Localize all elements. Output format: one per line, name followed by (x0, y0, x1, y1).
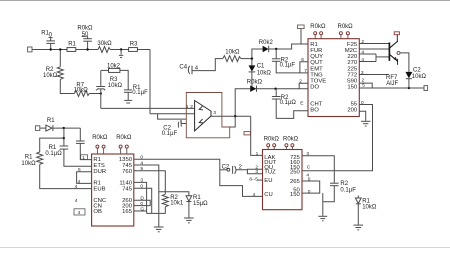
svg-text:R0kΩ: R0kΩ (310, 24, 326, 30)
svg-text:50: 50 (82, 32, 89, 38)
capacitor R1 0.1µF lower stem (127, 92, 129, 100)
wire diode R1 10kΩ to ground (357, 204, 359, 225)
wire branch to IC1 pin 6 (300, 62, 308, 73)
capacitor C2 0.1µF plates (177, 122, 179, 128)
IC1 U1 box (308, 39, 359, 117)
svg-text:10kΩ: 10kΩ (362, 204, 377, 210)
junction dot after diode R0k2 (275, 48, 277, 50)
svg-text:265: 265 (290, 179, 301, 185)
svg-text:270: 270 (347, 60, 358, 66)
wire op-amp input 2 (150, 113, 194, 115)
svg-text:R2: R2 (46, 67, 54, 73)
svg-text:0: 0 (140, 201, 143, 207)
junction dot B bottom-left (63, 137, 65, 139)
capacitor R2 0.1µF plates (right) (330, 182, 339, 184)
capacitor R1 0.1µΩ plates (76, 140, 85, 142)
junction dot cap R0kΩ-50 (86, 48, 88, 50)
svg-text:EU: EU (264, 178, 272, 184)
wire feedback notch (230, 116, 236, 127)
transistor emitter node circle (397, 51, 400, 54)
svg-text:0.1µF: 0.1µF (162, 131, 178, 137)
svg-text:30kΩ: 30kΩ (97, 41, 112, 47)
ground under IC2 745 (154, 226, 164, 228)
wire branch along op-amp lower input (158, 114, 187, 119)
svg-text:1: 1 (186, 104, 189, 110)
wire resistor R1 bottom to IC2 EUB (40, 164, 92, 188)
capacitor R2 0.1µF upper stem (275, 49, 277, 59)
junction dot under diode C2 (408, 87, 410, 89)
resistor R1 box (67, 48, 76, 52)
capacitor on feedback vertical, top plate (96, 86, 105, 88)
capacitor C2 polarized left wire (220, 169, 227, 171)
wire R2 10k1 bottom to bus (147, 207, 166, 214)
wire junction up and to diode R0k2 (252, 49, 263, 59)
diode R0k2 (263, 46, 269, 53)
IC3 top circle pins pair 1 (267, 147, 269, 150)
wire capacitor to IC2 ETS pin (64, 149, 92, 166)
svg-text:3: 3 (140, 178, 143, 184)
svg-text:3: 3 (213, 110, 216, 116)
resistor R3 box (129, 48, 138, 52)
wire 10k2 box right to cap R1 (120, 70, 128, 89)
wire R7 to node (89, 93, 101, 95)
wire diode R0kΩ to IC1 DO pin (257, 88, 309, 90)
junction dot cap R1-0 (50, 48, 52, 50)
svg-text:3: 3 (255, 169, 258, 175)
svg-text:4: 4 (361, 57, 364, 63)
capacitor R1-0 plates (46, 42, 55, 44)
svg-text:4: 4 (75, 198, 78, 204)
svg-text:D: D (140, 196, 144, 202)
wire C4 to 10k resistor staircase (192, 59, 223, 71)
svg-text:5: 5 (362, 82, 365, 88)
resistor R7 10kΩ zigzag (74, 91, 89, 97)
wire top pad to IC1 R1 wire (300, 29, 302, 44)
svg-text:CU: CU (264, 192, 273, 198)
svg-text:10kΩ: 10kΩ (43, 73, 58, 79)
diode R1 10kΩ stub (357, 195, 359, 198)
svg-text:QUT: QUT (310, 60, 323, 66)
box around pin number 1 at IC2 (81, 155, 88, 160)
pad near op-amp output (244, 132, 250, 135)
capacitor R1 0.1µF plates (124, 89, 132, 91)
wire IC1 220 pin 4 (359, 53, 376, 55)
svg-text:4: 4 (78, 179, 81, 185)
svg-text:G: G (140, 206, 144, 212)
svg-text:R1: R1 (49, 145, 57, 151)
capacitor R1-0 stem (50, 44, 52, 50)
capacitor R2 0.1µΩ plates (272, 96, 281, 98)
svg-text:5: 5 (78, 167, 81, 173)
wire IC2 745b pin down (134, 188, 152, 213)
op-amp U1 trapezoid body (195, 101, 211, 131)
wire op-amp input 1 (long) (101, 107, 194, 109)
junction dot A bottom-left (63, 127, 65, 129)
svg-text:3: 3 (306, 151, 309, 157)
svg-text:10k2: 10k2 (107, 64, 121, 70)
svg-text:BO: BO (310, 107, 319, 113)
svg-text:R0kΩ: R0kΩ (283, 136, 299, 142)
junction dot red stub (120, 48, 122, 50)
svg-text:250: 250 (290, 170, 301, 176)
svg-text:6: 6 (180, 119, 183, 125)
wire stem junction to red mark (120, 50, 122, 55)
capacitor R1 0.1µΩ plates (left) (60, 145, 69, 147)
svg-text:R3: R3 (130, 42, 138, 48)
wire junction A down to capacitor R1 0.1µΩ (63, 128, 65, 146)
ground under diode R1 10kΩ (354, 224, 364, 226)
svg-text:AlJF: AlJF (386, 81, 398, 87)
svg-text:200: 200 (347, 107, 358, 113)
svg-text:3: 3 (361, 70, 364, 76)
ground under diode R1 15µΩ (184, 217, 194, 219)
IC3 U3 box (263, 150, 303, 210)
capacitor R2 0.1µΩ upper stem (275, 89, 277, 97)
wire 10k to junction (241, 58, 252, 60)
pad above transistor (394, 32, 399, 35)
wire 30k to R3 box (110, 49, 128, 51)
wire IC1 55 pin 0 down to IC3 (302, 105, 373, 171)
svg-text:150: 150 (347, 85, 358, 91)
svg-text:0.1µΩ: 0.1µΩ (280, 100, 297, 106)
diode R1 15µΩ (outline, down) (186, 196, 192, 202)
svg-text:0: 0 (140, 184, 143, 190)
svg-text:4: 4 (361, 49, 364, 55)
svg-text:0.1µΩ: 0.1µΩ (45, 151, 62, 157)
box around pin number 4 at IC2 OB (74, 209, 85, 215)
IC1 top circle pins pair 1 (314, 35, 316, 39)
wire node vertical up to 10k2 and down to op-amp wire (100, 70, 102, 86)
input connector pad (28, 47, 32, 52)
frame top edge (0, 0, 450, 2)
wire IC2 1350 pin staircase to IC3 CU (134, 159, 263, 196)
svg-text:15µΩ: 15µΩ (193, 201, 208, 207)
transistor Q1 base bar (388, 42, 390, 61)
wire IC3 loop 265-50 (302, 181, 320, 193)
svg-text:0.1µF: 0.1µF (280, 62, 296, 68)
wire IC2 745 pin to ground (134, 165, 159, 227)
resistor 30kΩ zigzag (98, 47, 110, 53)
svg-text:E: E (300, 101, 303, 107)
svg-text:0: 0 (361, 100, 364, 106)
svg-text:4: 4 (75, 184, 78, 190)
wire IC1 270 pin 4 (359, 61, 376, 63)
svg-text:R0kΩ: R0kΩ (264, 136, 280, 142)
pad above IC1 (298, 25, 305, 29)
op-amp input chevron marks (199, 106, 203, 110)
svg-text:10kΩ: 10kΩ (74, 88, 89, 94)
svg-text:DO: DO (310, 85, 319, 91)
resistor R2 10k1 vertical zigzag (162, 194, 168, 206)
svg-text:R0kΩ: R0kΩ (77, 26, 93, 32)
wire IC1 150 pin to output pad (359, 87, 424, 89)
svg-text:760: 760 (122, 169, 133, 175)
capacitor R0kΩ-50 stem (87, 41, 89, 49)
resistor R2 10kΩ vertical zigzag (57, 67, 63, 80)
capacitor R2 0.1µF plates (272, 58, 281, 60)
svg-text:165: 165 (122, 209, 133, 215)
svg-text:9: 9 (140, 166, 143, 172)
transistor emitter circle wire to diode C2 (400, 53, 409, 72)
svg-text:0: 0 (140, 155, 143, 161)
wire IC2 165 pin stub (134, 210, 147, 212)
capacitor C2 circle (227, 168, 230, 171)
capacitor C2 straight plate (232, 166, 234, 174)
svg-text:R2: R2 (340, 181, 348, 187)
svg-text:7: 7 (304, 68, 307, 74)
svg-text:0.1µF: 0.1µF (340, 188, 356, 194)
diode C2 10kΩ pointing down (405, 72, 412, 79)
wire junction down to resistor R2 (59, 50, 61, 67)
svg-text:1: 1 (82, 155, 85, 161)
svg-text:10kΩ: 10kΩ (225, 49, 240, 55)
wire cap R2 bottom path (323, 186, 335, 202)
wire down to capacitor R1 0.1µΩ (79, 128, 81, 141)
wire vertical R3 output down to op-amp input (149, 50, 151, 114)
wire diode C2 to junction (408, 79, 410, 88)
op-amp block outline (186, 93, 229, 138)
svg-text:C1: C1 (257, 64, 265, 70)
junction dot at 10k diode node (251, 57, 253, 59)
wire pad to diode R1 (40, 127, 46, 129)
wire diode to cap corner (53, 127, 80, 129)
svg-text:R0k2: R0k2 (259, 40, 274, 46)
diode C1 10kΩ pointing down (249, 65, 256, 71)
wire R3 box to corner (138, 49, 151, 51)
svg-text:2: 2 (190, 104, 193, 110)
wire IC1 M2C pin to transistor base (359, 48, 389, 50)
svg-text:745: 745 (122, 186, 133, 192)
svg-text:R0kΩ: R0kΩ (116, 135, 132, 141)
wire op-amp output riser to diode row (235, 89, 250, 117)
red net stub mark (119, 55, 123, 57)
IC2 top circle pins pair 2 (120, 148, 122, 154)
capacitor C2 curved plate (235, 166, 236, 174)
resistor 10k2 box (109, 68, 120, 72)
pad at right edge (424, 86, 428, 91)
diode R0kΩ pointing right (250, 86, 256, 92)
wire R2 bottom to R7 (60, 79, 74, 93)
transistor Q1 emitter with arrow (389, 54, 397, 61)
svg-text:EUB: EUB (93, 186, 105, 192)
svg-text:6--5: 6--5 (249, 176, 258, 182)
svg-text:R0kΩ: R0kΩ (92, 135, 108, 141)
wire C2 to IC3 QU (236, 168, 262, 171)
junction dot at feedback node (100, 92, 102, 94)
svg-text:1: 1 (256, 151, 259, 157)
svg-text:R1: R1 (47, 118, 55, 124)
svg-text:10kΩ: 10kΩ (108, 83, 123, 89)
ground under IC3 right (318, 215, 327, 217)
ground under IC1 200 pin (361, 120, 371, 122)
IC2 U2 box (92, 154, 134, 226)
wire IC1 200 pin to ground (359, 111, 365, 121)
svg-text:10kΩ: 10kΩ (21, 161, 36, 167)
wire resistor R1 10kΩ top (40, 138, 64, 152)
wire IC3 EU stub (258, 179, 263, 181)
svg-text:DUR: DUR (93, 169, 106, 175)
wire diode R0k2 to IC1 (269, 44, 308, 49)
svg-text:C2: C2 (222, 164, 230, 170)
wire cap C2 to op-amp block (181, 123, 186, 125)
svg-text:10kΩ: 10kΩ (257, 70, 272, 76)
wire IC1 772 pin 2 loop (359, 83, 372, 88)
wire to transistor emitter (376, 56, 389, 58)
svg-text:2: 2 (361, 39, 364, 45)
wire staircase joining pins 4 (375, 54, 377, 62)
wire ground drop right of IC3 (322, 193, 324, 216)
svg-text:0: 0 (308, 177, 311, 183)
pad bottom-left (35, 126, 39, 131)
resistor 10kΩ zigzag (to diode) (223, 56, 241, 62)
wire R1 box to 30k resistor (76, 49, 98, 51)
capacitor C4 left curved plate (188, 66, 189, 74)
wire loop IC2 DUR to R1b (77, 172, 92, 184)
wire cap R2b to IC1 BO pin staircase (276, 99, 308, 118)
junction dot R2 branch (59, 48, 61, 50)
underline marks under cap value digits (48, 36, 52, 38)
svg-text:10kΩ: 10kΩ (412, 74, 427, 80)
svg-text:6: 6 (301, 57, 304, 63)
wire IC3 725 pin to cap R2 (302, 156, 334, 183)
wire IC1 F25 pin 2 to transistor base (359, 43, 389, 45)
svg-text:R0kΩ: R0kΩ (247, 80, 263, 86)
svg-text:C2: C2 (413, 67, 421, 73)
wire junction C1 chain down (251, 59, 253, 66)
IC2 top circle pins pair 1 (96, 148, 98, 154)
svg-text:4: 4 (140, 160, 143, 166)
diode R1 10kΩ (outline, down) (355, 198, 361, 204)
wire branch up to IC1 pin 2 (299, 83, 308, 88)
svg-text:2: 2 (239, 165, 242, 171)
wire input to R1 box (32, 49, 67, 51)
IC1 top circle pins pair 2 (340, 35, 342, 39)
svg-text:4: 4 (253, 192, 256, 198)
svg-text:R1: R1 (25, 155, 33, 161)
capacitor R0kΩ-50 plates (83, 40, 92, 42)
ground under cap R1 (124, 99, 132, 101)
svg-text:150: 150 (290, 192, 301, 198)
svg-text:4: 4 (78, 210, 81, 216)
op-amp output wire (211, 115, 251, 117)
wire IC2 1140 pin to bus (134, 182, 147, 213)
wire C1 to lower diode row (251, 72, 253, 89)
wire cap R2 bottom to IC1 pin 7 (276, 61, 308, 73)
junction dot at op-amp output (234, 115, 236, 117)
wire IC1 225 pin 3 (359, 74, 389, 76)
wire IC2 760 pin to R2 10k1 (134, 171, 166, 195)
wire branch to IC3 TUZ (247, 170, 262, 174)
svg-text:TUZ: TUZ (264, 170, 276, 176)
svg-text:0: 0 (308, 189, 311, 195)
junction dot on DO wire (274, 88, 276, 90)
resistor R1 10kΩ vertical zigzag (37, 152, 43, 164)
IC3 top circle pins pair 2 (285, 147, 287, 150)
svg-text:R1: R1 (68, 42, 76, 48)
svg-text:0.1µF: 0.1µF (132, 90, 148, 96)
wire node to 10k2 box (101, 69, 109, 71)
capacitor on feedback vertical, curved plate (96, 89, 105, 90)
diode R1 (outline) (46, 125, 52, 131)
svg-text:C: C (307, 164, 311, 170)
wire loop IC2 260-200 (134, 200, 150, 205)
wire branch to diode R1 15µΩ (159, 192, 189, 196)
svg-text:C4: C4 (179, 64, 187, 70)
wire diode R1 15µΩ to ground (188, 202, 190, 218)
capacitor C4 right plate (191, 66, 193, 75)
svg-text:R0kΩ: R0kΩ (338, 24, 354, 30)
svg-text:2: 2 (299, 79, 302, 85)
wire cap to IC2 R1 pin (80, 143, 91, 159)
svg-text:OB: OB (93, 209, 102, 215)
svg-text:10k1: 10k1 (170, 201, 184, 207)
transistor Q1 collector (389, 41, 398, 48)
frame bottom edge (0, 247, 450, 249)
wire op-amp output down to IC3 LAK (251, 116, 263, 155)
